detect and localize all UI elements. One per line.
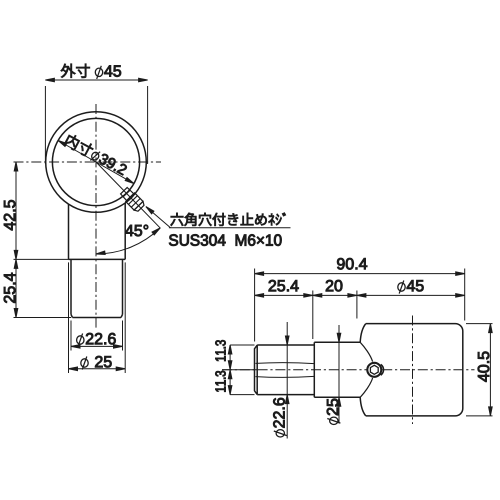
extension line small shaft top-left xyxy=(230,344,254,346)
set screw axis line at 45deg xyxy=(96,162,161,228)
label phi45 side xyxy=(398,280,424,293)
medium shaft bottom edge xyxy=(314,396,360,398)
dimension line 25.4 / 20 / phi45 chain xyxy=(255,294,465,296)
label phi22.6 front xyxy=(77,333,116,347)
small shaft phi22.6 end face with chamfers xyxy=(255,345,258,395)
dimension line outer phi45 xyxy=(45,79,147,81)
label phi25 front xyxy=(81,356,112,370)
dimension 11.3/11.3 vertical xyxy=(229,345,231,395)
set screw hex socket xyxy=(370,365,378,374)
dimension phi22.6 side vertical xyxy=(286,322,288,345)
set screw M6 front view body xyxy=(121,188,134,201)
label 40.5 (rotated) xyxy=(478,352,489,382)
dimension phi25 side vertical xyxy=(338,325,340,342)
side view horizontal center line xyxy=(222,369,475,371)
label phi22.6 side (rotated) xyxy=(273,398,287,437)
label 25.4 (rotated) xyxy=(4,273,15,303)
knob inner circle phi39.2 xyxy=(52,118,139,205)
set screw side ellipse edge xyxy=(381,364,384,375)
extension lines phi25 bottom xyxy=(68,262,70,373)
extension line small shaft center xyxy=(222,369,257,371)
dimension line phi25 xyxy=(69,368,126,370)
label 内寸 phi39.2 (rotated) xyxy=(63,133,128,177)
shoulder step line xyxy=(69,258,126,260)
extension line bottom xyxy=(14,317,72,319)
upper shaft phi25 right edge xyxy=(124,203,126,259)
small shaft chamfer junction line xyxy=(256,345,258,395)
lower shaft bottom face xyxy=(73,317,122,319)
small shaft top edge xyxy=(257,344,314,346)
big body vertical center line xyxy=(412,316,414,425)
dome face bottom fillet xyxy=(360,397,366,416)
label phi25 side (rotated) xyxy=(327,399,341,425)
leader arrow to set screw xyxy=(146,207,171,228)
extension line right for outer dim xyxy=(147,86,149,164)
set screw cross lines xyxy=(123,190,130,197)
label 90.4 xyxy=(337,258,367,269)
dimension line 90.4 xyxy=(255,273,465,275)
label 20 side xyxy=(326,280,342,291)
extension lines 40.5 xyxy=(466,323,493,325)
dome face top fillet xyxy=(360,324,366,343)
extension line left for outer dim xyxy=(44,86,46,164)
small shaft surface lines xyxy=(256,362,315,365)
knob outer circle phi45 xyxy=(46,112,147,213)
lower shaft bottom chamfer left xyxy=(71,315,73,318)
lower shaft bottom chamfer right xyxy=(121,315,123,318)
label 六角穴付き止めネジ xyxy=(171,213,286,226)
medium shaft phi25 left edge xyxy=(313,342,315,397)
label 外寸 xyxy=(61,64,90,78)
small shaft bottom edge xyxy=(257,394,314,396)
extension lines for top dimensions xyxy=(254,269,256,342)
set screw side view ring xyxy=(367,363,381,377)
label 25.4 side xyxy=(269,280,299,291)
dimension line phi22.6 xyxy=(71,345,123,347)
label phi45 (outer) xyxy=(95,66,121,79)
dome silhouette arc lower xyxy=(360,378,372,397)
dimension line inner phi39.2 (diagonal) xyxy=(58,141,134,184)
dimension line 42.5 and 25.4 vertical xyxy=(15,162,17,318)
extension lines phi22.6 bottom xyxy=(70,321,72,351)
label 45deg xyxy=(125,225,148,236)
lower shaft phi22.6 left edge xyxy=(70,259,72,314)
lower shaft phi22.6 right edge xyxy=(122,259,124,314)
label 11.3 lower (rotated) xyxy=(215,371,225,392)
leader underline xyxy=(169,227,291,229)
label 11.3 upper (rotated) xyxy=(215,340,225,361)
45deg angle arc xyxy=(96,228,160,254)
dome silhouette arc upper xyxy=(360,342,372,361)
front view: vertical center line xyxy=(95,104,97,330)
extension line small shaft bottom-left xyxy=(230,394,254,396)
big body outline with rounded corners xyxy=(366,324,463,416)
medium shaft top edge xyxy=(314,341,360,343)
dimension line 40.5 xyxy=(489,324,491,416)
front view: horizontal center line xyxy=(14,161,162,163)
label 42.5 (rotated) xyxy=(4,200,15,230)
label SUS304 M6x10 xyxy=(169,234,281,245)
upper shaft phi25 left edge xyxy=(68,204,70,259)
extension line shoulder xyxy=(14,258,69,260)
